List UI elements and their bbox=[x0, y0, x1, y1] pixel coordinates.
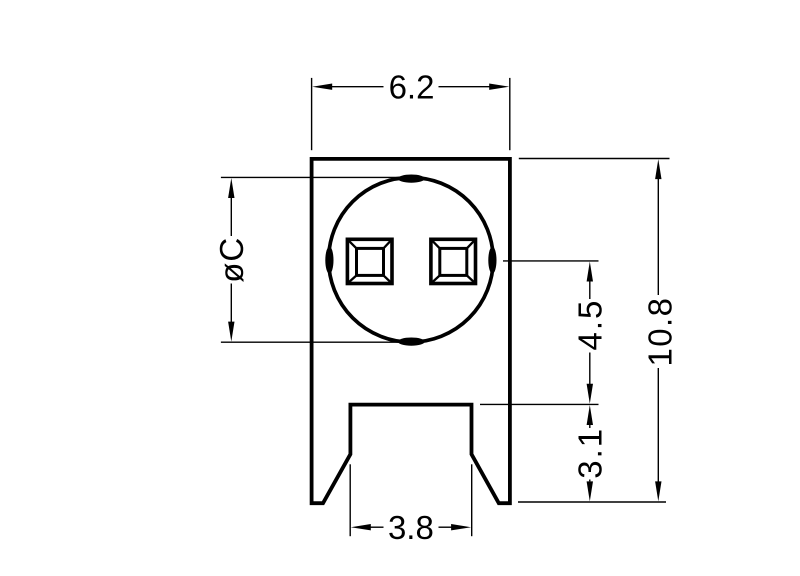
dim 3.8 line left segment bbox=[370, 526, 383, 528]
dim 6.2 arrow left bbox=[312, 84, 332, 90]
dim 3.8 extension line left bbox=[349, 464, 351, 536]
dim oC extension line top bbox=[221, 176, 411, 178]
dim 10.8 line top segment bbox=[657, 179, 659, 296]
pad left outer bbox=[347, 239, 392, 283]
pad right inner bbox=[440, 248, 467, 275]
dim oC extension line bottom bbox=[221, 341, 411, 343]
dim 3.8 arrow left bbox=[351, 524, 371, 530]
svg-text:3.8: 3.8 bbox=[388, 509, 434, 546]
bottom extension line bbox=[518, 501, 666, 503]
svg-text:10.8: 10.8 bbox=[641, 297, 678, 367]
dim 4.5 arrow bottom bbox=[587, 384, 593, 404]
dim 10.8 arrow bottom bbox=[655, 481, 661, 501]
svg-text:øC: øC bbox=[213, 237, 250, 283]
svg-text:6.2: 6.2 bbox=[389, 69, 435, 106]
dim 4.5 line bottom segment bbox=[589, 353, 591, 385]
lens gate mark left bbox=[325, 247, 333, 274]
pad right bevels bbox=[431, 239, 476, 283]
dim 3.1 arrow bottom bbox=[587, 481, 593, 501]
dim oC arrow bottom bbox=[228, 322, 234, 342]
dim 3.1 line bottom segment bbox=[589, 480, 591, 482]
dim 6.2 line right segment bbox=[439, 86, 490, 88]
pad left inner bbox=[357, 248, 384, 275]
dim 4.5 extension line top bbox=[503, 260, 599, 262]
dim 10.8 arrow top bbox=[655, 159, 661, 179]
pad left bevels bbox=[347, 239, 392, 283]
body outline bbox=[312, 159, 510, 503]
lens gate mark right bbox=[488, 247, 496, 274]
dim 4.5/3.1 shared extension line bbox=[480, 403, 599, 405]
pad right outer bbox=[431, 239, 476, 283]
dim 3.8 extension line right bbox=[471, 464, 473, 536]
dim 3.1 line top segment bbox=[589, 425, 591, 428]
dim 10.8 extension line top bbox=[519, 158, 670, 160]
dim 4.5 line top segment bbox=[589, 281, 591, 299]
dim oC arrow top bbox=[228, 178, 234, 198]
dim 4.5 arrow top bbox=[587, 262, 593, 282]
svg-text:4.5: 4.5 bbox=[572, 299, 609, 351]
dim 3.1 arrow top bbox=[587, 405, 593, 425]
dim oC line top segment bbox=[230, 197, 232, 236]
dim 6.2 extension line right bbox=[509, 78, 511, 150]
svg-text:3.1: 3.1 bbox=[572, 427, 609, 479]
dim 6.2 arrow right bbox=[489, 84, 509, 90]
dim 6.2 line left segment bbox=[332, 86, 384, 88]
dim 10.8 line bottom segment bbox=[657, 368, 659, 482]
dim 3.8 arrow right bbox=[451, 524, 471, 530]
dim 3.8 line right segment bbox=[439, 526, 452, 528]
lens circle bbox=[329, 177, 494, 342]
lens gate mark top bbox=[398, 175, 425, 183]
dim 6.2 extension line left bbox=[311, 78, 313, 150]
lens gate mark bottom bbox=[398, 338, 425, 346]
dim oC line bottom segment bbox=[230, 284, 232, 323]
